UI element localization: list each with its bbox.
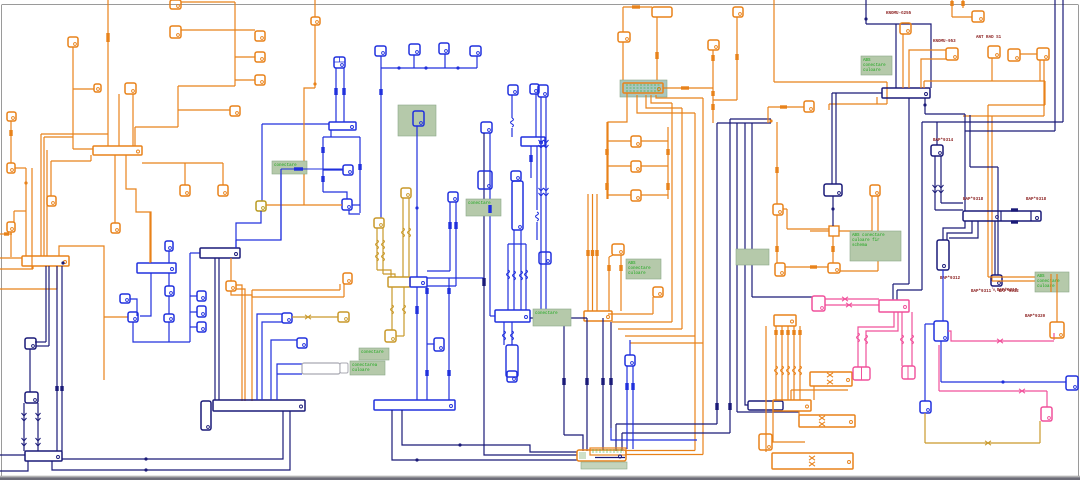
fuse bbox=[544, 188, 549, 196]
splice bbox=[4, 232, 9, 235]
pin bbox=[313, 82, 316, 85]
connector B20 bbox=[530, 84, 539, 94]
wire bbox=[323, 169, 343, 171]
wire bbox=[752, 296, 812, 298]
wire bbox=[783, 208, 787, 210]
wire bbox=[776, 122, 778, 204]
splice bbox=[950, 1, 953, 6]
connector X8 bbox=[255, 75, 265, 85]
wire bbox=[622, 7, 624, 32]
coil bbox=[775, 366, 778, 375]
wire bbox=[178, 109, 230, 111]
wire bbox=[969, 115, 971, 167]
wire bbox=[330, 130, 332, 137]
wire bbox=[962, 0, 964, 8]
connector X41 bbox=[804, 101, 814, 112]
wire bbox=[924, 324, 926, 401]
connector X26 bbox=[828, 263, 840, 273]
bus C3 bbox=[137, 263, 176, 273]
wire bbox=[988, 104, 1045, 106]
wire bbox=[791, 389, 848, 391]
connector B8 bbox=[197, 322, 206, 332]
splice bbox=[342, 88, 345, 95]
splice bbox=[358, 164, 361, 170]
connector Xr bbox=[631, 161, 641, 172]
splice bbox=[744, 254, 747, 262]
wire bbox=[694, 113, 696, 451]
connector X36 bbox=[1050, 322, 1064, 338]
wire bbox=[586, 318, 588, 451]
wire bbox=[1053, 333, 1055, 340]
connector X29 bbox=[759, 434, 772, 450]
wire bbox=[133, 322, 190, 342]
connector X30 bbox=[900, 23, 911, 34]
connector B22 bbox=[507, 371, 517, 382]
splice bbox=[792, 330, 795, 335]
wire bbox=[618, 328, 682, 330]
wire bbox=[611, 428, 697, 440]
wire bbox=[608, 257, 610, 311]
wire bbox=[963, 115, 1044, 117]
wire bbox=[25, 168, 27, 256]
diode bbox=[36, 413, 41, 421]
junction bbox=[144, 457, 147, 460]
coil bbox=[857, 333, 860, 342]
connector G5 bbox=[385, 330, 396, 342]
wire bbox=[925, 442, 1040, 444]
splice bbox=[605, 183, 608, 190]
junction bbox=[424, 66, 427, 69]
wire bbox=[181, 29, 255, 31]
wire bbox=[444, 54, 446, 68]
wire bbox=[646, 95, 682, 108]
splice bbox=[425, 370, 428, 376]
wire trunk bbox=[107, 0, 109, 146]
svg-text:BAP*9320: BAP*9320 bbox=[1025, 314, 1046, 319]
wire bbox=[774, 81, 887, 83]
wire bbox=[671, 103, 673, 322]
wire bbox=[835, 93, 837, 184]
splice bbox=[609, 378, 612, 385]
wire bbox=[858, 312, 894, 367]
splice bbox=[447, 288, 450, 294]
wire bbox=[396, 335, 404, 337]
wire bbox=[178, 85, 235, 87]
wire bbox=[48, 266, 50, 346]
wire bbox=[656, 17, 658, 83]
wire bbox=[130, 299, 137, 316]
wire bbox=[997, 167, 999, 275]
diode bbox=[22, 438, 27, 446]
splice bbox=[562, 378, 565, 385]
connector X1 bbox=[68, 37, 78, 47]
wire bbox=[886, 82, 888, 104]
wire bbox=[236, 211, 261, 248]
wire bbox=[483, 133, 485, 400]
connector X5 bbox=[170, 26, 181, 38]
wire bbox=[61, 266, 63, 451]
wire bbox=[41, 133, 108, 135]
junction bbox=[1001, 380, 1004, 383]
wire bbox=[940, 341, 942, 382]
splice bbox=[735, 54, 738, 60]
splice bbox=[775, 246, 778, 252]
svg-text:ABS: ABS bbox=[1037, 275, 1045, 279]
wire bbox=[190, 295, 197, 297]
wire bbox=[602, 318, 604, 450]
wire bbox=[751, 123, 753, 297]
connector B19 bbox=[508, 85, 518, 95]
wire bbox=[991, 116, 993, 281]
wire bbox=[426, 287, 428, 400]
connector B30 bbox=[478, 171, 492, 189]
twist bbox=[305, 315, 311, 319]
wire bbox=[876, 97, 878, 104]
twist bbox=[827, 380, 833, 384]
connector X22 bbox=[733, 7, 743, 17]
wire bbox=[235, 56, 255, 58]
bus K1 bbox=[584, 311, 612, 321]
wire bbox=[391, 287, 393, 330]
wire bbox=[948, 331, 1054, 341]
splice bbox=[425, 288, 428, 294]
connector B11 bbox=[334, 57, 345, 68]
wire bbox=[1043, 60, 1045, 116]
bus I1 bbox=[623, 83, 663, 93]
bus I1 hatch bbox=[626, 85, 660, 91]
wire bbox=[168, 296, 170, 314]
twist bbox=[846, 303, 852, 307]
connector X6 bbox=[255, 31, 265, 41]
splice bbox=[625, 383, 628, 390]
connector B7 bbox=[197, 306, 206, 317]
splice bbox=[9, 130, 12, 136]
wire bbox=[1039, 60, 1041, 81]
pin bbox=[1011, 220, 1018, 223]
wire bbox=[402, 198, 404, 277]
module M3 bbox=[963, 211, 1041, 221]
wire bbox=[408, 198, 410, 277]
splice bbox=[831, 246, 834, 252]
wire bbox=[339, 284, 341, 290]
wire bbox=[825, 298, 879, 300]
wire bbox=[530, 146, 532, 178]
wire bbox=[952, 16, 972, 18]
connector X31 bbox=[946, 48, 958, 60]
connector X32 bbox=[972, 11, 984, 22]
twist bbox=[819, 422, 825, 426]
wire bbox=[252, 289, 340, 291]
wire bbox=[626, 366, 628, 449]
connector B6 bbox=[197, 291, 206, 301]
wire bbox=[626, 450, 695, 452]
splice bbox=[681, 86, 689, 89]
svg-text:conectare: conectare bbox=[863, 64, 886, 68]
wire bbox=[490, 315, 495, 317]
wire bbox=[252, 296, 344, 298]
connector B17 bbox=[470, 46, 481, 56]
connector Xr bbox=[631, 136, 641, 147]
wire bbox=[134, 127, 136, 146]
label L2 bbox=[272, 161, 307, 174]
connector X2 bbox=[94, 84, 101, 92]
splice bbox=[60, 386, 63, 391]
wire bbox=[629, 340, 631, 355]
svg-text:conectare: conectare bbox=[468, 202, 491, 206]
diode bbox=[939, 185, 944, 193]
wire bbox=[484, 400, 577, 455]
wire bbox=[941, 381, 1066, 383]
bus C4 bbox=[200, 248, 240, 258]
splice bbox=[715, 403, 718, 410]
pin bbox=[24, 181, 27, 184]
wire bbox=[118, 94, 120, 146]
connector B14 bbox=[375, 46, 386, 56]
relay K3 bbox=[201, 401, 211, 430]
wire bbox=[314, 0, 316, 17]
wire bbox=[13, 211, 15, 222]
connector X18b bbox=[343, 273, 352, 284]
label L10 bbox=[861, 56, 892, 75]
coil bbox=[787, 366, 790, 375]
bus G4 (blue half) bbox=[410, 277, 427, 287]
wire bbox=[508, 243, 526, 245]
connector N1 bbox=[931, 145, 943, 156]
wire bbox=[813, 386, 815, 400]
wire bbox=[736, 123, 738, 412]
wire bbox=[637, 95, 695, 113]
wire bbox=[51, 160, 91, 162]
wire bbox=[942, 270, 944, 321]
wire bbox=[73, 88, 94, 90]
resistor bbox=[507, 270, 510, 279]
module box X19 bbox=[652, 7, 672, 17]
splice bbox=[547, 316, 556, 319]
wire bbox=[449, 202, 451, 271]
wire bbox=[427, 270, 450, 272]
wire bbox=[775, 326, 777, 400]
wire bbox=[168, 322, 170, 342]
splice bbox=[415, 306, 418, 314]
connector B25 bbox=[448, 192, 458, 202]
wire bbox=[43, 137, 45, 256]
wire bbox=[992, 280, 1035, 282]
wire bbox=[280, 169, 282, 240]
connector X7 bbox=[255, 52, 265, 62]
wire bbox=[924, 80, 1045, 82]
connector G1 bbox=[338, 312, 349, 322]
svg-text:BAP*9311 \ BAP*9312: BAP*9311 \ BAP*9312 bbox=[971, 289, 1019, 294]
wire bbox=[503, 322, 505, 345]
wire bbox=[1039, 421, 1041, 443]
bus M1 bbox=[882, 88, 930, 98]
splice bbox=[619, 265, 622, 271]
rung bbox=[607, 140, 631, 142]
bus J1 upper bbox=[730, 118, 771, 120]
splice bbox=[586, 250, 589, 256]
coil bbox=[901, 335, 904, 344]
wire bbox=[924, 413, 926, 443]
wire bbox=[938, 345, 940, 391]
wire bbox=[736, 17, 738, 100]
inline lamp W1 bbox=[302, 363, 340, 374]
wire bbox=[511, 128, 513, 137]
splice bbox=[666, 183, 669, 190]
resistor bbox=[536, 212, 539, 221]
junction bbox=[415, 206, 418, 209]
connector X10 bbox=[7, 112, 16, 121]
wire bbox=[335, 68, 337, 122]
twist bbox=[842, 297, 848, 301]
wire bbox=[135, 126, 178, 128]
rung bbox=[641, 165, 668, 167]
wire bbox=[281, 168, 343, 170]
connector X16 bbox=[218, 185, 228, 196]
wire bbox=[168, 273, 170, 286]
wire bbox=[507, 244, 509, 310]
wire bbox=[56, 267, 58, 289]
coil bbox=[391, 305, 394, 314]
bus C2 bbox=[22, 256, 69, 266]
splice bbox=[294, 167, 303, 170]
wire bbox=[126, 155, 151, 263]
wire bbox=[564, 435, 583, 451]
wire bbox=[609, 255, 613, 257]
wire bbox=[427, 277, 484, 279]
wire bbox=[865, 0, 867, 24]
wire bbox=[323, 136, 360, 138]
bus P3 bbox=[879, 300, 909, 312]
wire bbox=[15, 167, 26, 169]
wire bbox=[231, 291, 252, 401]
coil bbox=[408, 228, 411, 237]
wire bbox=[235, 79, 255, 81]
connector N2 bbox=[991, 275, 1002, 286]
wire bbox=[10, 121, 12, 163]
junction bbox=[456, 66, 459, 69]
label L3 bbox=[398, 105, 436, 136]
wire bbox=[1044, 81, 1046, 105]
connector Y1 (olive) bbox=[256, 201, 266, 211]
connector Xr bbox=[631, 190, 641, 201]
wire bbox=[626, 454, 703, 456]
splice bbox=[775, 167, 778, 173]
wire bbox=[62, 411, 283, 459]
junction box X25 bbox=[829, 226, 839, 236]
fuse bbox=[539, 188, 544, 196]
wire bbox=[909, 50, 946, 88]
diode bbox=[22, 413, 27, 421]
wire bbox=[382, 228, 384, 274]
splice bbox=[798, 330, 801, 335]
wire bbox=[349, 210, 360, 214]
splice bbox=[379, 89, 382, 95]
wire bbox=[10, 232, 12, 257]
splice bbox=[780, 330, 783, 335]
coil bbox=[911, 335, 914, 344]
connector X13 bbox=[111, 223, 120, 233]
row R1 bbox=[810, 372, 852, 386]
wire bbox=[530, 317, 587, 319]
svg-text:ANT RAD S1: ANT RAD S1 bbox=[976, 36, 1002, 40]
connector B3 bbox=[128, 312, 138, 322]
wire bbox=[511, 322, 513, 345]
wire bbox=[940, 156, 942, 203]
wire bbox=[262, 123, 329, 125]
wire bbox=[832, 196, 834, 226]
coil bbox=[376, 252, 379, 261]
connector B4 bbox=[165, 286, 174, 296]
wire bbox=[427, 285, 456, 287]
wire bbox=[810, 230, 829, 232]
connector B23 bbox=[538, 85, 548, 97]
connector P4 bbox=[853, 367, 870, 380]
splice bbox=[632, 5, 640, 8]
ladder rail2 bbox=[667, 127, 669, 199]
splice bbox=[655, 52, 658, 59]
connector B31 bbox=[539, 252, 551, 264]
wire bbox=[828, 104, 830, 110]
wire bbox=[737, 411, 799, 413]
junction box J2 bbox=[748, 401, 783, 410]
wire bbox=[403, 287, 405, 336]
wire bbox=[892, 284, 894, 300]
splice bbox=[106, 33, 109, 42]
splice bbox=[321, 147, 324, 153]
wire bbox=[615, 424, 617, 451]
connector P2 bbox=[812, 296, 825, 311]
wire bbox=[1020, 53, 1037, 55]
wire bbox=[31, 168, 33, 269]
wire bbox=[489, 133, 491, 316]
splice bbox=[601, 378, 604, 385]
svg-text:ABS: ABS bbox=[863, 59, 871, 63]
svg-text:BAP*9318: BAP*9318 bbox=[963, 197, 984, 202]
wire bbox=[359, 137, 361, 213]
wire bbox=[271, 340, 297, 400]
wire bbox=[0, 0, 1, 1]
splice bbox=[488, 205, 491, 213]
wire bbox=[520, 230, 522, 310]
splice bbox=[454, 222, 457, 229]
splice bbox=[334, 88, 337, 95]
wire bbox=[214, 258, 216, 400]
wire bbox=[790, 390, 792, 400]
resistor bbox=[513, 271, 516, 280]
connector B29 bbox=[1066, 376, 1078, 390]
diode bbox=[933, 185, 938, 193]
label L1 bbox=[350, 361, 385, 375]
wire bbox=[236, 285, 242, 401]
wire bbox=[59, 246, 104, 380]
svg-text:conectare: conectare bbox=[535, 312, 558, 316]
wire bbox=[251, 290, 253, 297]
wire bbox=[292, 316, 338, 318]
wire bbox=[46, 150, 48, 256]
wire bbox=[716, 123, 718, 424]
wire bbox=[656, 95, 703, 98]
pin bbox=[61, 261, 64, 264]
wire bbox=[383, 274, 395, 277]
wire bbox=[190, 326, 197, 328]
connector K2 bbox=[25, 392, 38, 403]
twist bbox=[997, 339, 1003, 343]
bus H1 bbox=[374, 400, 455, 410]
rung bbox=[641, 140, 668, 142]
wire bbox=[36, 345, 49, 347]
wire bbox=[623, 6, 652, 8]
svg-text:ABS: ABS bbox=[628, 262, 636, 266]
